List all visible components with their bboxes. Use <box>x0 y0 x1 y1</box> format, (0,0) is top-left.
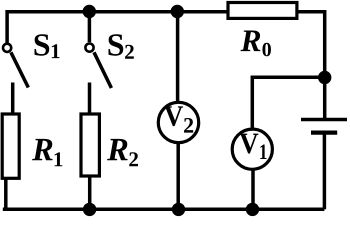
junction dot: bottom wire / V2 branch <box>172 203 185 216</box>
label R1 <box>32 139 52 160</box>
label R0 <box>241 30 261 51</box>
battery short plate <box>311 131 337 135</box>
junction dot: top wire / S2 branch <box>83 5 96 18</box>
label R2 <box>107 139 127 160</box>
label V1 <box>240 134 259 154</box>
wire: horizontal from V1 branch to right wire <box>252 75 324 79</box>
wire: R0 to top-right corner and down right side <box>297 12 325 118</box>
wire: left riser and top side to R0 <box>7 12 228 43</box>
switch S2 pivot circle <box>85 44 93 52</box>
wire: V2 branch lower <box>176 142 180 209</box>
label S1 <box>35 34 50 56</box>
label S2 <box>109 34 124 56</box>
wire: S2 branch from top junction down to switch <box>88 12 92 43</box>
wire: V1 riser <box>251 76 255 131</box>
resistor R0 <box>228 3 297 19</box>
label V2 <box>164 106 183 126</box>
wire: below R1 to bottom-left corner <box>4 178 8 209</box>
junction dot: top wire / V2 branch <box>171 5 184 18</box>
wire: below battery to bottom-right corner <box>323 133 327 210</box>
battery long plate <box>301 118 347 122</box>
wire: V2 branch upper <box>176 12 180 103</box>
switch S1 lower terminal wire <box>11 83 15 117</box>
junction dot: bottom wire / R2 branch <box>83 203 96 216</box>
resistor R1 <box>2 114 19 178</box>
switch S2 lower terminal wire <box>88 83 92 117</box>
switch S1 blade <box>11 52 28 87</box>
wire: below R2 to bottom junction <box>88 176 92 209</box>
resistor R2 <box>81 114 99 176</box>
junction dot: bottom wire / V1 branch <box>246 203 259 216</box>
wire: V1 branch lower <box>251 169 255 209</box>
voltmeter V2 <box>158 102 198 142</box>
voltmeter V1 <box>232 129 272 169</box>
switch S1 pivot circle <box>3 44 11 52</box>
wire: bottom side <box>3 208 325 212</box>
switch S2 blade <box>94 52 111 88</box>
junction dot: right side tap <box>318 71 331 84</box>
